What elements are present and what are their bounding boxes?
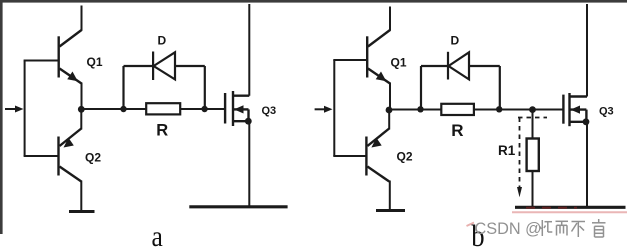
wire main node row (circuit b) [389,109,563,111]
svg-text:a: a [152,220,163,247]
svg-text:R1: R1 [498,143,516,158]
diode D (circuit a) [124,52,205,111]
wire Q3 drain up (circuit b) [586,4,588,97]
watermark glyph 盲 [592,219,606,237]
node A junction dot (circuit a) [78,106,85,113]
wire Q2 collector down (circuit b) [389,181,391,211]
wire input bus (circuit a) [24,61,26,157]
transistor Q1 (NPN, circuit b) [367,30,390,84]
transistor Q1 (NPN, circuit a) [59,30,82,84]
pink artifact near label b [467,223,475,227]
left border [0,0,3,234]
svg-text:Q2: Q2 [397,150,413,164]
ground (circuit b) [376,209,405,212]
wire Q1 emitter to node (circuit b) [389,83,391,111]
transistor Q2 (PNP, circuit b) [366,129,389,182]
wire Q3 source down (circuit b) [586,122,588,207]
ground (circuit a) [69,210,95,213]
junction dot Q3 source (circuit a) [245,118,252,125]
svg-text:R: R [156,122,168,140]
junction dot diode left (circuit b) [417,106,423,112]
resistor R1 (circuit b) [527,139,539,172]
junction dot gate node (circuit b) [529,106,536,113]
top border [0,0,627,3]
wire node to Q2 emitter (circuit a) [80,109,82,130]
svg-text:D: D [451,34,460,48]
diode D (circuit b) [421,52,500,110]
wire Q1 base (circuit a) [24,60,59,62]
wire Q1 emitter to node (circuit a) [81,83,83,111]
wire Q3 drain up (circuit a) [248,4,250,96]
maroon watermark dashes on rail (circuit b) [526,207,577,209]
wire gate node to R1 (circuit b) [532,110,534,139]
wire Q2 collector down (circuit a) [80,181,82,212]
svg-text:Q1: Q1 [391,56,407,70]
wire Q3 source down (circuit a) [248,121,250,206]
svg-text:R: R [451,121,463,140]
wire R1 to rail (circuit b) [532,171,534,207]
pink watermark underline (circuit b) [512,211,627,213]
svg-text:Q1: Q1 [87,55,103,69]
wire Q1 collector up (circuit b) [389,7,391,31]
input arrow (circuit a) [5,106,24,113]
transistor Q2 (PNP, circuit a) [59,129,82,182]
wire node to Q2 emitter (circuit b) [388,110,390,130]
wire input bus (circuit b) [333,60,335,156]
wire main node row (circuit a) [81,108,225,110]
resistor R (circuit a) [146,103,180,114]
node B junction dot (circuit b) [386,107,393,114]
watermark glyph 忙 [540,220,553,236]
wire Q2 base (circuit a) [24,155,59,157]
junction dot diode right (circuit a) [201,106,207,112]
resistor R (circuit b) [441,104,474,115]
wire Q1 collector up (circuit a) [81,6,83,31]
input arrow (circuit b) [315,106,333,113]
dashed current path with arrow (circuit b) [517,118,547,198]
wire Q1 base (circuit b) [333,59,367,61]
svg-text:D: D [158,34,167,48]
svg-text:CSDN @: CSDN @ [475,220,542,238]
junction dot Q3 source (circuit b) [583,118,590,125]
mosfet Q3 (circuit a) [225,91,249,126]
svg-text:Q3: Q3 [262,105,277,117]
ground rail (circuit a) [189,205,287,208]
svg-text:Q3: Q3 [599,106,614,118]
wire Q2 base (circuit b) [333,155,366,157]
svg-text:Q2: Q2 [85,151,101,165]
mosfet Q3 (circuit b) [563,93,587,126]
watermark glyph 不 [572,222,586,238]
ground rail (circuit b) [515,206,626,209]
watermark glyph 而 [556,221,569,235]
junction dot diode left (circuit a) [120,106,126,112]
junction dot diode right (circuit b) [496,106,502,112]
